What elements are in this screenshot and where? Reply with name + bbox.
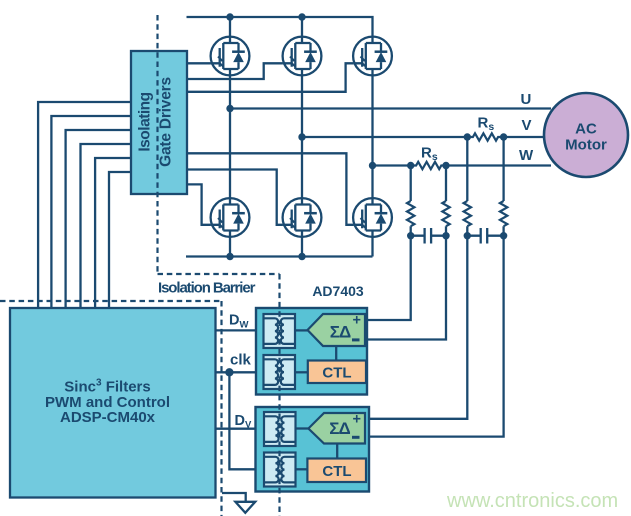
wire gate drive to Q1 — [187, 62, 211, 64]
wire MCU to driver 5 — [95, 158, 131, 308]
wire phase leg V vertical — [301, 75, 303, 198]
wire V sense left divider — [365, 137, 467, 419]
wire Dv from MCU — [216, 428, 265, 430]
wire Dw from MCU — [216, 329, 264, 331]
junction top rail at Q1 — [226, 13, 233, 20]
wire gate drive to Q3 — [187, 63, 353, 92]
block AD7403 lower — [256, 407, 370, 492]
wire top DC bus rail — [187, 17, 373, 37]
transformer T4 lower clk — [264, 453, 296, 487]
svg-text:Gate Drivers: Gate Drivers — [158, 77, 175, 167]
node W phase output line left of Rs — [373, 164, 411, 166]
svg-text:Isolation Barrier: Isolation Barrier — [158, 280, 256, 297]
AC motor M1 — [544, 93, 628, 177]
wire MCU to driver 3 — [66, 130, 131, 308]
wire MCU to driver 2 — [51, 116, 131, 308]
junction W cap left — [407, 232, 414, 239]
transistor Q3 IGBT top W — [353, 37, 392, 76]
junction clk — [225, 368, 233, 376]
wire xfmr to CTL lower — [295, 468, 308, 470]
svg-text:ΣΔ: ΣΔ — [329, 419, 350, 438]
barrier dashed through AD7403 transformers — [278, 274, 280, 516]
wire bottom DC bus rail — [186, 255, 373, 257]
wire top rail drop to Q1 — [229, 17, 231, 37]
block AD7403 upper — [256, 308, 367, 395]
resistor V divider left — [464, 201, 471, 226]
transformer T2 upper clk — [264, 355, 296, 389]
wire phase leg U vertical — [229, 75, 231, 198]
wire xfmr to CTL upper — [295, 371, 308, 373]
op-amp sigma-delta lower — [308, 413, 365, 444]
barrier dashed horizontal left — [0, 300, 222, 302]
transistor Q2 IGBT top V — [283, 37, 322, 76]
svg-text:CTL: CTL — [322, 365, 351, 382]
wire gate drive to Q6 — [187, 153, 353, 225]
op-amp sigma-delta upper — [308, 314, 366, 346]
svg-text:ADSP-CM40x: ADSP-CM40x — [60, 409, 156, 426]
wire MCU to driver 4 — [81, 144, 132, 308]
wire gate drive to Q5 — [187, 170, 283, 225]
svg-text:W: W — [519, 147, 534, 164]
resistor Rs V phase shunt — [467, 133, 503, 140]
label minus upper — [352, 338, 360, 341]
capacitor W filter — [411, 228, 446, 244]
svg-text:V: V — [522, 117, 532, 134]
svg-text:Sinc3 Filters: Sinc3 Filters — [64, 378, 150, 396]
svg-text:Motor: Motor — [565, 137, 607, 154]
wire clk down to second AD7403 — [229, 372, 264, 469]
junction bottom rail at Q4 — [226, 253, 233, 260]
wire sigma-delta to CTL upper — [335, 346, 337, 361]
block isolating gate drivers U2 — [131, 51, 187, 194]
junction V Rs left — [464, 133, 471, 140]
block CTL lower — [307, 459, 366, 483]
junction V tap — [298, 133, 305, 140]
node V phase output line left of Rs — [302, 136, 467, 138]
svg-text:ΣΔ: ΣΔ — [330, 322, 351, 341]
wire W sense right divider — [365, 166, 446, 340]
wire xfmr to sigma-delta lower — [295, 427, 309, 429]
junction V Rs right — [500, 133, 507, 140]
junction W cap right — [442, 232, 449, 239]
svg-text:+: + — [353, 411, 361, 427]
wire V line right of Rs to motor — [504, 136, 544, 138]
barrier dashed horizontal jog — [158, 273, 280, 275]
transistor Q5 IGBT bottom V — [283, 198, 322, 237]
ground — [222, 493, 246, 502]
transistor Q6 IGBT bottom W — [353, 198, 392, 237]
wire xfmr to sigma-delta upper — [295, 329, 308, 331]
transistor Q4 IGBT bottom U — [211, 198, 250, 237]
svg-text:CTL: CTL — [322, 463, 351, 480]
wire sigma-delta to CTL lower — [336, 444, 338, 459]
transformer T3 lower data — [264, 412, 296, 446]
junction bottom rail at Q5 — [298, 253, 305, 260]
junction top rail at Q2 — [298, 13, 305, 20]
wire gate drive to Q4 — [187, 184, 211, 224]
svg-text:clk: clk — [230, 352, 252, 369]
junction W Rs right — [442, 162, 449, 169]
junction U tap — [226, 105, 233, 112]
wire top rail drop to Q2 — [301, 17, 303, 37]
barrier dashed through gate drivers — [156, 15, 158, 274]
junction V cap right — [500, 232, 507, 239]
wire phase leg W vertical — [371, 75, 373, 198]
resistor W divider left — [407, 201, 414, 226]
barrier dashed vertical data side — [220, 301, 222, 516]
svg-text:AC: AC — [575, 121, 597, 138]
wire MCU to driver 6 — [109, 172, 131, 308]
wire MCU to driver 1 — [38, 102, 131, 308]
svg-text:AD7403: AD7403 — [312, 283, 364, 299]
label minus lower — [352, 436, 360, 439]
block MCU ADSP-CM40x — [10, 308, 216, 498]
transistor Q1 IGBT top U — [211, 37, 250, 76]
transformer T1 upper data — [264, 314, 296, 348]
wire V sense right divider — [365, 137, 504, 437]
svg-text:www.cntronics.com: www.cntronics.com — [446, 490, 618, 512]
wire clk from MCU — [216, 371, 264, 373]
junction W Rs left — [407, 162, 414, 169]
resistor Rs W phase shunt — [411, 162, 447, 169]
svg-text:+: + — [353, 312, 361, 328]
resistor V divider right — [500, 201, 507, 226]
node U phase output line — [230, 107, 551, 109]
capacitor V filter — [467, 228, 503, 244]
svg-text:U: U — [521, 91, 532, 108]
wire W line right of Rs to motor — [446, 164, 551, 166]
wire bottom emitters to negative rail — [230, 237, 373, 257]
junction V cap left — [464, 232, 471, 239]
resistor W divider right — [442, 201, 449, 226]
wire W sense left divider — [365, 166, 411, 321]
junction W tap — [369, 162, 376, 169]
svg-text:Isolating: Isolating — [137, 92, 154, 151]
wire gate drive to Q2 — [187, 63, 283, 79]
block CTL upper — [308, 361, 366, 384]
